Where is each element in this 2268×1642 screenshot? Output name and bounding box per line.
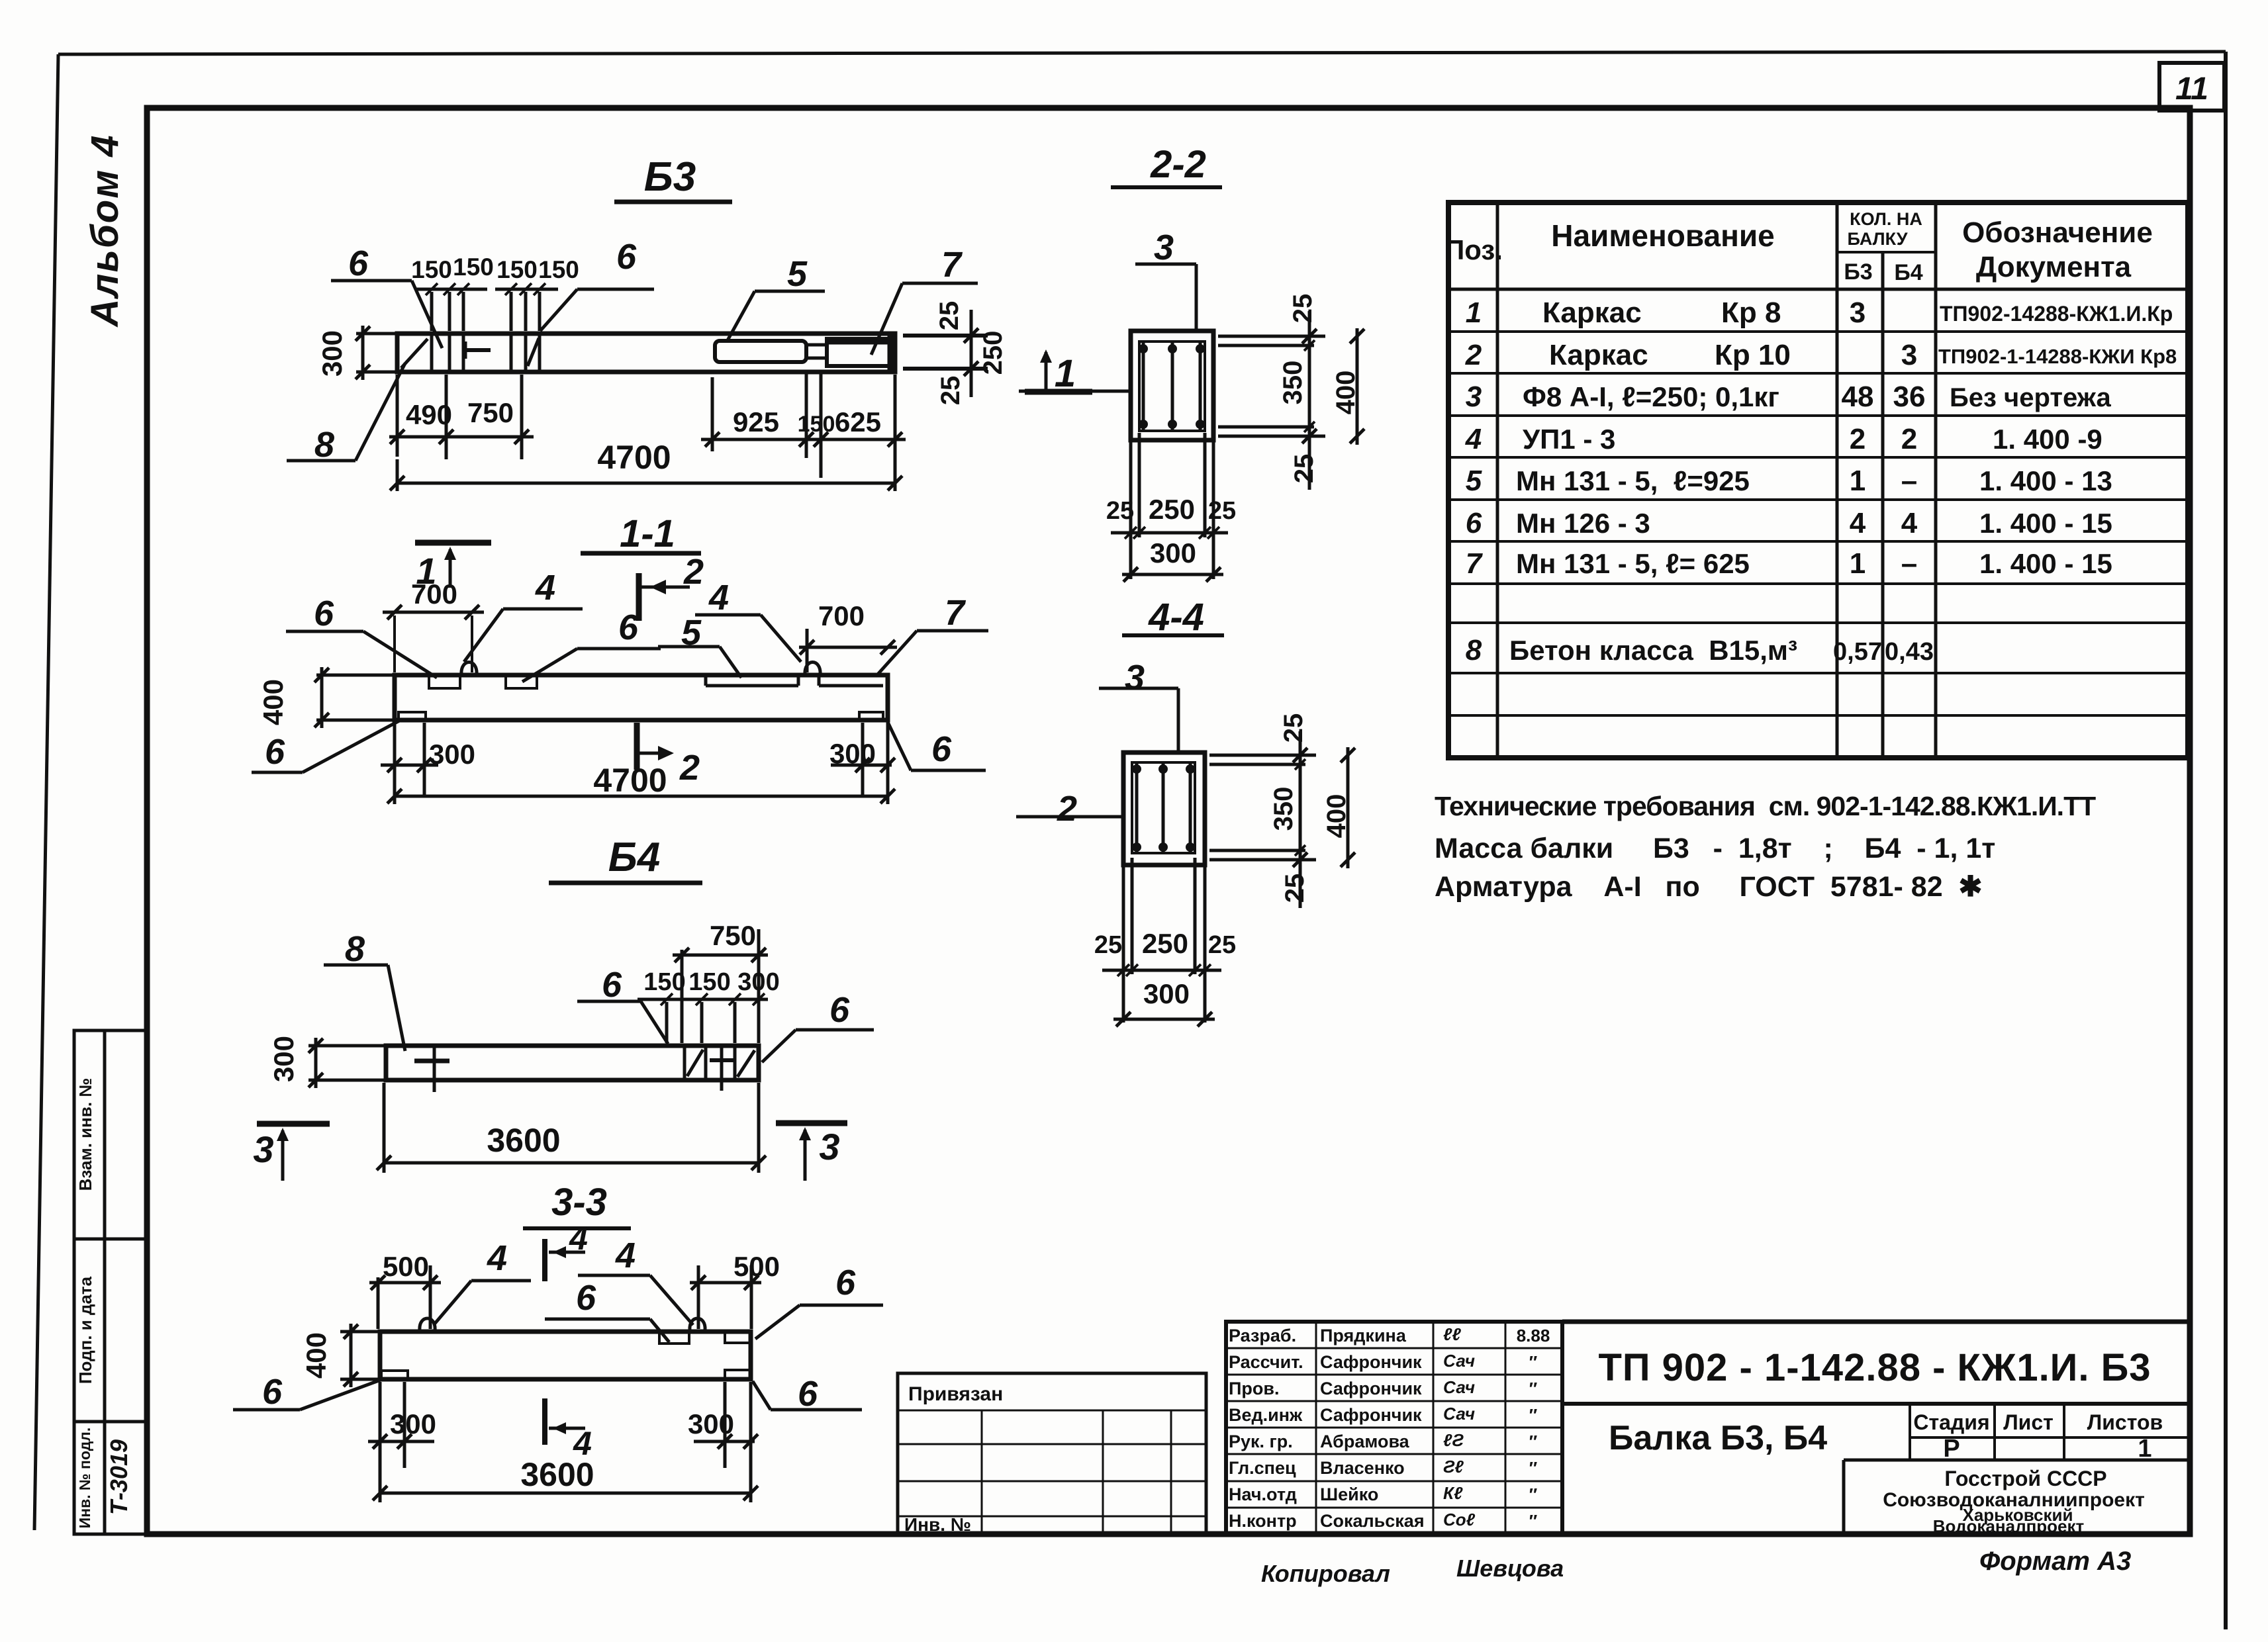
- svg-text:350: 350: [1278, 361, 1307, 405]
- svg-text:250: 250: [1142, 928, 1188, 959]
- leader 6 top-left (1-1): [286, 594, 437, 678]
- svg-text:3-3: 3-3: [551, 1181, 607, 1224]
- signature block grid: [1226, 1322, 1562, 1534]
- svg-text:25: 25: [1279, 713, 1308, 743]
- title 2-2: [1111, 143, 1222, 187]
- svg-text:5: 5: [1466, 465, 1482, 497]
- svg-text:Сафрончик: Сафрончик: [1320, 1379, 1422, 1398]
- svg-text:Наименование: Наименование: [1551, 218, 1774, 253]
- svg-text:6: 6: [602, 965, 622, 1005]
- svg-text:4: 4: [1850, 507, 1866, 539]
- leader 6 top-right (3-3): [755, 1263, 883, 1339]
- svg-text:36: 36: [1893, 381, 1926, 413]
- svg-text:Подп. и дата: Подп. и дата: [75, 1276, 95, 1384]
- svg-text:300: 300: [1150, 537, 1196, 569]
- svg-text:5: 5: [787, 254, 808, 294]
- svg-text:Вед.инж: Вед.инж: [1229, 1405, 1303, 1425]
- title Б3: [614, 154, 732, 202]
- svg-text:Рук. гр.: Рук. гр.: [1229, 1432, 1293, 1451]
- slash in Б4 cell: [687, 1050, 703, 1076]
- beam Б4 plan outline: [386, 1046, 759, 1080]
- leader 5 (Б3 plan): [727, 254, 825, 342]
- dim 3600 (Б4): [377, 1083, 766, 1173]
- svg-text:2: 2: [1465, 339, 1482, 371]
- embed plate Мн131-5 l=625 (item 7) plan: [827, 339, 891, 366]
- section mark 2 top (in 1-1): [639, 552, 704, 621]
- svg-text:Инв. № подл.: Инв. № подл.: [76, 1428, 93, 1529]
- svg-text:250: 250: [1149, 494, 1195, 525]
- leader 4 left (3-3): [434, 1238, 531, 1325]
- svg-text:Сач: Сач: [1443, 1351, 1475, 1371]
- svg-text:8: 8: [345, 929, 365, 969]
- title 1-1: [581, 512, 701, 555]
- svg-text:Взам. инв. №: Взам. инв. №: [75, 1078, 95, 1191]
- svg-text:150: 150: [411, 256, 452, 283]
- svg-text:Сафрончик: Сафрончик: [1320, 1405, 1422, 1425]
- signature block rows: [1229, 1324, 1550, 1531]
- svg-text:6: 6: [576, 1278, 596, 1318]
- svg-text:Водоканалпроект: Водоканалпроект: [1933, 1516, 2085, 1536]
- dim 3600 (3-3): [373, 1382, 758, 1502]
- svg-text:6: 6: [829, 990, 850, 1030]
- svg-text:Абрамова: Абрамова: [1320, 1432, 1410, 1451]
- svg-text:4700: 4700: [597, 439, 671, 476]
- svg-text:300: 300: [1143, 978, 1190, 1009]
- svg-text:ℓƧ: ℓƧ: [1443, 1430, 1464, 1450]
- plate 5 edge strip (1-1): [706, 676, 798, 686]
- dim 500 right (3-3): [690, 1251, 780, 1329]
- table row 3 Ф8 А-I: [1466, 381, 2112, 413]
- svg-text:2: 2: [1901, 423, 1917, 455]
- svg-text:Без чертежа: Без чертежа: [1950, 383, 2112, 412]
- svg-text:–: –: [1901, 465, 1917, 497]
- svg-text:4: 4: [1465, 423, 1482, 455]
- plate 7 edge strip (1-1): [819, 676, 883, 686]
- svg-text:Сач: Сач: [1443, 1377, 1475, 1397]
- стадия лист листов header: [1913, 1410, 2163, 1463]
- dim 400 left (3-3): [301, 1324, 379, 1387]
- dim 25 250 25 right of Б3 plan: [903, 301, 1008, 406]
- stirrup Кр10 (4-4): [1132, 762, 1195, 853]
- svg-text:150: 150: [453, 253, 494, 281]
- section mark 2 bottom (in 1-1): [637, 723, 700, 788]
- bottom notch right (3-3): [725, 1370, 749, 1378]
- svg-text:1: 1: [1850, 547, 1866, 580]
- table row 5 Мн 131-5 l=925: [1466, 465, 2112, 497]
- svg-text:3600: 3600: [520, 1456, 594, 1493]
- svg-text:6: 6: [314, 594, 334, 633]
- section 2-2 concrete outline: [1131, 331, 1213, 440]
- svg-text:Б4: Б4: [608, 835, 660, 880]
- svg-text:3: 3: [1466, 381, 1482, 413]
- svg-text:400: 400: [1331, 371, 1360, 415]
- table header texts: [1444, 209, 2153, 285]
- table row 1 Каркас Кр8: [1466, 296, 2173, 329]
- svg-text:Р: Р: [1943, 1435, 1960, 1463]
- dims 25 250 25 300 bottom (2-2): [1106, 433, 1236, 582]
- lifting pin mark right (Б4): [710, 1047, 733, 1091]
- svg-text:400: 400: [301, 1332, 332, 1379]
- svg-text:УП1 - 3: УП1 - 3: [1523, 424, 1615, 455]
- svg-text:1. 400 - 15: 1. 400 - 15: [1979, 548, 2112, 579]
- svg-text:6: 6: [798, 1374, 818, 1414]
- svg-text:Формат А3: Формат А3: [1979, 1547, 2131, 1576]
- dim 300 left (1-1): [381, 723, 475, 798]
- leader 6 bottom-right (1-1): [887, 721, 986, 770]
- lifting loop right (1-1): [805, 662, 820, 676]
- svg-text:6: 6: [348, 244, 369, 283]
- svg-text:4-4: 4-4: [1148, 596, 1204, 639]
- bottom notch left (1-1): [399, 712, 426, 720]
- svg-text:Кℓ: Кℓ: [1443, 1483, 1463, 1503]
- svg-text:300: 300: [316, 330, 348, 377]
- svg-text:Мн 131 - 5, ℓ= 625: Мн 131 - 5, ℓ= 625: [1516, 548, 1750, 579]
- top recess notch second (1-1): [506, 676, 537, 688]
- embed plate Мн131-5 l=925 (item 5) plan: [715, 341, 806, 362]
- slash mark right cell: [528, 338, 539, 366]
- svg-text:300: 300: [390, 1408, 436, 1439]
- dim 300 left (Б4): [268, 1036, 385, 1088]
- table row 7 Мн 131-5 l=625: [1466, 547, 2112, 580]
- beam Б3 plan outline: [397, 334, 895, 372]
- svg-text:Т-3019: Т-3019: [105, 1439, 132, 1515]
- leader 4 right (1-1): [695, 578, 801, 662]
- stirrup Кр8 (2-2): [1139, 342, 1205, 431]
- svg-text:ТП902-14288-КЖ1.И.Кр: ТП902-14288-КЖ1.И.Кр: [1940, 302, 2173, 326]
- svg-text:3: 3: [1901, 339, 1917, 371]
- beam Б3 right end thick edge: [888, 334, 894, 372]
- top right corner notch (3-3): [725, 1333, 749, 1343]
- svg-text:6: 6: [931, 729, 952, 769]
- svg-text:48: 48: [1842, 381, 1874, 413]
- svg-text:Масса балки Б3 - 1,8т: Масса балки Б3 - 1,8т ; Б4 - 1, 1т: [1435, 833, 1995, 864]
- svg-text:Арматура А-I по ГОСТ: Арматура А-I по ГОСТ 5781- 82 ✱: [1435, 871, 1983, 903]
- svg-text:Альбом 4: Альбом 4: [83, 134, 126, 328]
- bottom notch left (3-3): [381, 1371, 408, 1378]
- svg-text:7: 7: [1466, 547, 1484, 580]
- svg-text:625: 625: [835, 406, 881, 437]
- svg-text:Листов: Листов: [2087, 1410, 2163, 1434]
- svg-text:25: 25: [936, 376, 965, 406]
- beam 1-1 outline: [395, 675, 888, 720]
- leader 1 каркас (2-2): [1019, 352, 1131, 395]
- svg-text:4: 4: [615, 1236, 636, 1275]
- slash mark left cell: [401, 339, 428, 368]
- leader 5 (1-1): [658, 613, 741, 678]
- svg-text:″: ″: [1529, 1432, 1537, 1451]
- dim 300 left of Б3 plan: [316, 326, 397, 380]
- svg-text:–: –: [1901, 547, 1917, 580]
- dim 150 150 300 (Б4): [638, 968, 780, 1043]
- svg-text:Сафрончик: Сафрончик: [1320, 1352, 1422, 1372]
- table row 8 Бетон класса В15: [1466, 634, 1934, 666]
- sheet number box 11: [2159, 63, 2224, 111]
- svg-text:700: 700: [818, 600, 865, 631]
- leader 6 bottom-left (1-1): [252, 719, 402, 772]
- section mark 4 bottom (in 3-3): [545, 1398, 592, 1462]
- svg-text:Инв. №: Инв. №: [904, 1514, 971, 1535]
- svg-text:Документа: Документа: [1976, 251, 2132, 283]
- svg-text:4: 4: [487, 1238, 507, 1278]
- svg-text:3: 3: [1125, 658, 1145, 698]
- svg-text:150: 150: [798, 412, 835, 437]
- rebars (2-2): [1139, 343, 1205, 430]
- svg-text:150: 150: [496, 256, 538, 283]
- dim 300 left (3-3): [368, 1382, 436, 1468]
- svg-text:0,43: 0,43: [1885, 638, 1934, 666]
- inner drawing frame: [147, 108, 2190, 1534]
- lifting loop left (3-3): [420, 1318, 435, 1330]
- svg-text:″: ″: [1529, 1484, 1537, 1504]
- svg-text:2: 2: [683, 552, 704, 592]
- dim 400 left (1-1): [258, 667, 393, 728]
- lifting loop left (1-1): [461, 662, 477, 676]
- svg-text:300: 300: [688, 1408, 734, 1439]
- svg-text:25: 25: [1208, 497, 1236, 525]
- section mark 1 left: [415, 543, 491, 592]
- dim 300 right (1-1): [829, 723, 895, 798]
- svg-text:Нач.отд: Нач.отд: [1229, 1484, 1297, 1504]
- svg-text:6: 6: [835, 1263, 856, 1302]
- leader 6 mid (1-1): [522, 608, 661, 682]
- svg-text:Пров.: Пров.: [1229, 1379, 1280, 1398]
- svg-text:1. 400 - 15: 1. 400 - 15: [1979, 508, 2112, 539]
- leader 8 (Б3 plan): [287, 363, 405, 465]
- svg-text:Н.контр: Н.контр: [1229, 1511, 1297, 1531]
- dim 4700 (Б3 plan): [390, 375, 902, 491]
- leader 6 right (Б4): [762, 990, 874, 1062]
- svg-text:25: 25: [935, 301, 964, 331]
- table row 6 Мн 126-3: [1466, 507, 2112, 539]
- svg-text:8.88: 8.88: [1517, 1326, 1550, 1346]
- svg-text:Бетон класса В15,м³: Бетон класса В15,м³: [1509, 635, 1797, 666]
- svg-text:ℓℓ: ℓℓ: [1443, 1324, 1461, 1344]
- привязан reference box: [898, 1373, 1206, 1535]
- svg-text:Ф8 А-I, ℓ=250; 0,1кг: Ф8 А-I, ℓ=250; 0,1кг: [1523, 381, 1779, 412]
- svg-text:25: 25: [1288, 294, 1317, 324]
- top recess notch (3-3): [659, 1333, 689, 1344]
- svg-text:750: 750: [710, 920, 756, 951]
- копировал Шевцова note: [1261, 1555, 1564, 1587]
- svg-text:1: 1: [2138, 1435, 2151, 1463]
- svg-text:2-2: 2-2: [1150, 143, 1206, 186]
- leader 7 (1-1): [876, 593, 988, 676]
- dims 25 350 400 25 right (4-4): [1209, 713, 1355, 908]
- svg-text:Б4: Б4: [1894, 260, 1922, 285]
- left attribute strip (Взам.инв.№ / Подп. и дата / Инв.№ подл.): [74, 1030, 147, 1534]
- leader 6 left (3-3): [233, 1372, 381, 1412]
- svg-text:Сач: Сач: [1443, 1404, 1475, 1424]
- svg-text:Власенко: Власенко: [1320, 1458, 1405, 1478]
- svg-text:3: 3: [1850, 296, 1866, 329]
- svg-text:4: 4: [535, 568, 555, 608]
- svg-text:400: 400: [258, 679, 289, 725]
- svg-text:4: 4: [569, 1220, 588, 1257]
- leader 8 (Б4 plan): [324, 929, 405, 1051]
- svg-text:6: 6: [265, 732, 285, 772]
- svg-text:500: 500: [383, 1251, 429, 1282]
- svg-text:6: 6: [616, 237, 637, 277]
- svg-text:25: 25: [1208, 931, 1236, 959]
- beam Б3 end cell dividers: [432, 335, 540, 371]
- leader 6 right (3-3): [753, 1374, 862, 1414]
- svg-text:250: 250: [978, 331, 1008, 375]
- svg-text:150: 150: [643, 968, 685, 996]
- svg-text:1. 400 -9: 1. 400 -9: [1993, 424, 2103, 455]
- svg-text:700: 700: [411, 578, 457, 610]
- lifting pin mark in Б3 plan: [465, 342, 491, 359]
- dim 4700 (1-1): [387, 723, 895, 804]
- leader 6 mid (3-3): [545, 1278, 669, 1342]
- svg-text:КОЛ. НА: КОЛ. НА: [1850, 209, 1922, 229]
- svg-text:0,57: 0,57: [1833, 638, 1882, 666]
- svg-text:6: 6: [262, 1372, 283, 1412]
- svg-text:6: 6: [1466, 507, 1482, 539]
- svg-text:150: 150: [688, 968, 730, 996]
- svg-text:Балка Б3, Б4: Балка Б3, Б4: [1609, 1419, 1827, 1457]
- leader 3 (2-2): [1135, 228, 1196, 331]
- svg-text:Каркас: Каркас: [1542, 296, 1642, 329]
- svg-text:25: 25: [1290, 454, 1319, 484]
- leader 4 left (1-1): [464, 568, 583, 662]
- svg-text:Ƨℓ: Ƨℓ: [1443, 1457, 1464, 1477]
- parts table grid: [1448, 203, 2188, 758]
- svg-text:Шевцова: Шевцова: [1456, 1555, 1564, 1582]
- leader 4 right (3-3): [578, 1236, 693, 1325]
- svg-text:25: 25: [1280, 874, 1309, 903]
- svg-text:Шейко: Шейко: [1320, 1484, 1378, 1504]
- svg-text:ТП902-1-14288-КЖИ Кр8: ТП902-1-14288-КЖИ Кр8: [1938, 345, 2177, 368]
- svg-text:1: 1: [1055, 352, 1076, 395]
- dim 150 150 150 150 (Б3 plan): [411, 253, 579, 331]
- svg-text:3: 3: [1154, 228, 1174, 267]
- svg-text:Рассчит.: Рассчит.: [1229, 1352, 1303, 1372]
- title block main grid: [1562, 1322, 2188, 1534]
- svg-text:Прядкина: Прядкина: [1320, 1326, 1407, 1346]
- dim 490 and 750 (Б3 plan): [389, 375, 534, 459]
- svg-text:2: 2: [1850, 423, 1866, 455]
- svg-text:7: 7: [945, 593, 967, 633]
- svg-text:750: 750: [467, 397, 514, 428]
- svg-text:″: ″: [1529, 1352, 1537, 1372]
- svg-text:Копировал: Копировал: [1261, 1560, 1390, 1587]
- svg-text:Обозначение: Обозначение: [1962, 216, 2153, 249]
- top recess notch left (1-1): [429, 676, 460, 688]
- svg-text:4: 4: [1901, 507, 1918, 539]
- svg-text:Кр 8: Кр 8: [1721, 296, 1781, 329]
- svg-text:8: 8: [314, 425, 334, 465]
- section 4-4 concrete outline: [1123, 753, 1205, 865]
- dim 500 left (3-3): [369, 1251, 441, 1329]
- svg-text:Привязан: Привязан: [908, 1383, 1003, 1405]
- svg-text:4700: 4700: [593, 762, 667, 799]
- bottom notch right (1-1): [859, 712, 883, 720]
- svg-text:БАЛКУ: БАЛКУ: [1847, 229, 1908, 249]
- svg-text:300: 300: [737, 968, 779, 996]
- organization block Госстрой СССР: [1883, 1467, 2145, 1536]
- lifting loop right (3-3): [690, 1318, 705, 1330]
- svg-text:490: 490: [406, 399, 452, 430]
- plate connector neck: [806, 345, 827, 358]
- title 4-4: [1122, 596, 1224, 639]
- svg-text:3: 3: [253, 1128, 273, 1170]
- slash in Б4 end cell: [737, 1050, 755, 1077]
- dim 750 (Б4): [673, 920, 768, 1043]
- svg-text:Стадия: Стадия: [1913, 1410, 1989, 1434]
- svg-text:25: 25: [1094, 931, 1122, 959]
- svg-text:8: 8: [1466, 634, 1482, 666]
- section mark 3 left: [253, 1124, 330, 1181]
- svg-text:3: 3: [819, 1126, 839, 1167]
- leader 6 left (Б3 plan): [331, 244, 442, 348]
- svg-text:Б3: Б3: [644, 154, 696, 200]
- leader 3 (4-4): [1099, 658, 1178, 753]
- dim 700 right (1-1): [799, 600, 897, 672]
- leader 7 (Б3 plan): [871, 245, 978, 355]
- rebars (4-4): [1132, 764, 1195, 852]
- svg-text:1: 1: [1466, 296, 1482, 329]
- svg-text:Кр 10: Кр 10: [1715, 339, 1791, 371]
- svg-text:Мн 126 - 3: Мн 126 - 3: [1516, 508, 1650, 539]
- svg-text:300: 300: [268, 1036, 299, 1082]
- dim 925 150 625 (Б3 plan): [701, 371, 906, 478]
- svg-text:Гл.спец: Гл.спец: [1229, 1458, 1296, 1478]
- svg-text:″: ″: [1529, 1379, 1537, 1398]
- svg-text:400: 400: [1322, 794, 1351, 839]
- svg-text:7: 7: [941, 245, 963, 285]
- svg-text:Б3: Б3: [1844, 259, 1872, 285]
- svg-text:Госстрой СССР: Госстрой СССР: [1944, 1467, 2106, 1490]
- svg-text:11: 11: [2175, 71, 2208, 107]
- svg-text:25: 25: [1106, 497, 1134, 525]
- beam Б4 right cell dividers: [685, 1047, 735, 1079]
- title Б4: [549, 835, 702, 883]
- svg-text:1-1: 1-1: [620, 512, 675, 555]
- beam 3-3 outline: [380, 1332, 751, 1379]
- svg-text:4: 4: [708, 578, 729, 617]
- svg-text:Поз.: Поз.: [1444, 234, 1503, 265]
- section mark 1 right: [1025, 349, 1092, 392]
- leader 6 mid (Б4): [577, 965, 668, 1044]
- svg-text:1: 1: [1850, 465, 1866, 497]
- svg-text:2: 2: [1057, 789, 1077, 829]
- svg-text:Мн 131 - 5, ℓ=925: Мн 131 - 5, ℓ=925: [1516, 465, 1750, 496]
- svg-text:925: 925: [733, 406, 779, 437]
- svg-text:″: ″: [1529, 1405, 1537, 1425]
- svg-text:Технические требования см. 90: Технические требования см. 902-1-142.88.…: [1435, 791, 2096, 821]
- dims 25 350 400 25 right (2-2): [1218, 294, 1364, 490]
- svg-text:150: 150: [538, 256, 579, 283]
- leader 6 second (Б3 plan): [540, 237, 654, 331]
- svg-text:″: ″: [1529, 1458, 1537, 1478]
- svg-text:Сокальская: Сокальская: [1320, 1511, 1425, 1531]
- svg-text:350: 350: [1269, 787, 1298, 831]
- svg-text:2: 2: [679, 748, 700, 788]
- svg-text:1. 400 - 13: 1. 400 - 13: [1979, 465, 2112, 496]
- svg-text:Лист: Лист: [2003, 1410, 2054, 1434]
- svg-text:Каркас: Каркас: [1549, 339, 1648, 371]
- svg-text:Соℓ: Соℓ: [1443, 1510, 1476, 1529]
- svg-text:Разраб.: Разраб.: [1229, 1326, 1296, 1346]
- section mark 3 right: [776, 1123, 847, 1181]
- section mark 4 top (in 3-3): [545, 1220, 588, 1281]
- dim 700 left (1-1): [383, 578, 484, 672]
- svg-text:6: 6: [618, 608, 639, 647]
- leader 2 каркас (4-4): [1016, 789, 1123, 829]
- title 3-3: [523, 1181, 631, 1228]
- table row 4 УП1-3: [1465, 423, 2103, 455]
- svg-text:″: ″: [1529, 1511, 1537, 1531]
